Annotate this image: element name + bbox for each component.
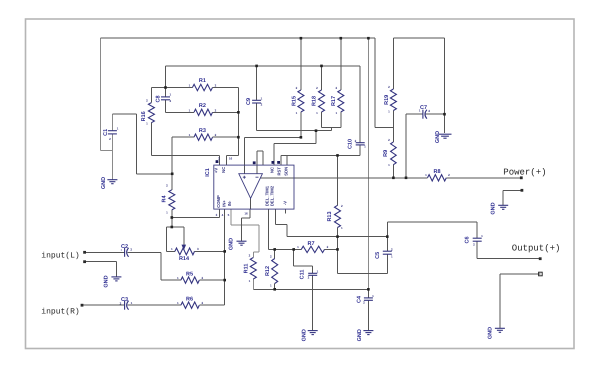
svg-text:R8: R8 [433, 169, 440, 175]
svg-text:R4: R4 [162, 195, 168, 203]
svg-text:R5: R5 [186, 272, 193, 278]
svg-text:C3: C3 [121, 297, 128, 303]
svg-text:R16: R16 [141, 111, 147, 121]
svg-text:R12: R12 [265, 266, 271, 276]
svg-text:R3: R3 [199, 128, 206, 134]
svg-text:C1: C1 [103, 129, 109, 136]
svg-text:IN+: IN+ [221, 200, 226, 207]
svg-text:NC: NC [221, 167, 226, 173]
svg-text:C11: C11 [300, 270, 306, 280]
svg-text:COMP: COMP [216, 195, 221, 208]
svg-text:GND: GND [302, 329, 308, 341]
svg-text:C9: C9 [246, 98, 252, 105]
svg-text:C7: C7 [420, 105, 427, 111]
svg-text:R14: R14 [179, 256, 190, 262]
svg-text:GND: GND [357, 329, 363, 341]
svg-text:IC1: IC1 [205, 168, 211, 177]
svg-text:IN-: IN- [227, 200, 232, 206]
svg-text:GND: GND [488, 327, 494, 339]
svg-text:GND: GND [229, 238, 235, 250]
svg-text:R2: R2 [199, 103, 206, 109]
svg-text:GND: GND [491, 202, 497, 214]
svg-text:C8: C8 [156, 95, 162, 102]
svg-text:+: + [120, 248, 122, 252]
svg-text:R13: R13 [327, 211, 333, 221]
svg-text:DEL_TIM2: DEL_TIM2 [269, 185, 274, 206]
svg-text:R6: R6 [186, 297, 193, 303]
svg-text:-V: -V [283, 201, 288, 205]
svg-text:GND: GND [101, 177, 107, 189]
svg-text:R11: R11 [244, 264, 250, 274]
svg-text:GND: GND [104, 275, 110, 287]
svg-text:R18: R18 [312, 96, 318, 106]
svg-text:input(L): input(L) [41, 251, 79, 260]
svg-text:16: 16 [244, 212, 248, 216]
svg-text:R1: R1 [199, 78, 206, 84]
svg-text:R9: R9 [383, 150, 389, 157]
svg-text:GND: GND [435, 131, 441, 143]
svg-text:C4: C4 [357, 295, 363, 303]
svg-text:C6: C6 [465, 236, 471, 243]
svg-text:NC: NC [269, 167, 274, 173]
svg-text:R15: R15 [292, 96, 298, 106]
svg-text:+V: +V [214, 168, 219, 173]
svg-text:C5: C5 [375, 252, 381, 259]
svg-text:Power(+): Power(+) [503, 167, 546, 177]
svg-text:SDN: SDN [284, 167, 289, 176]
svg-text:R17: R17 [331, 96, 337, 106]
svg-text:RST: RST [277, 167, 282, 176]
svg-text:C10: C10 [348, 139, 354, 149]
svg-text:Output(+): Output(+) [512, 244, 561, 254]
svg-text:input(R): input(R) [41, 308, 79, 317]
svg-text:R7: R7 [307, 241, 314, 247]
svg-text:16: 16 [229, 157, 233, 161]
svg-text:R19: R19 [384, 95, 390, 105]
